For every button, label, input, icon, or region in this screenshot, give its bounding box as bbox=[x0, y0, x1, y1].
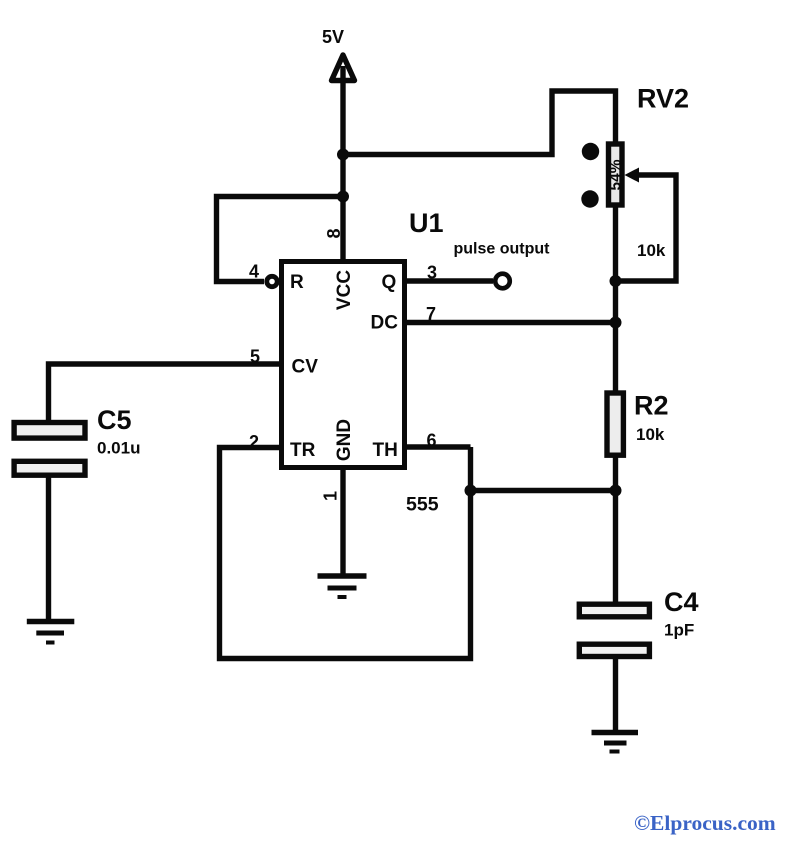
svg-text:6: 6 bbox=[427, 431, 437, 451]
wire C4 to ground bbox=[613, 659, 618, 733]
node junction dot VCC/RV2 branch bbox=[337, 149, 349, 161]
pin 3 wire Q output bbox=[407, 278, 493, 283]
capacitor C4 bottom plate bbox=[579, 644, 649, 656]
svg-text:10k: 10k bbox=[636, 425, 665, 444]
node junction dot wiper return bbox=[610, 275, 622, 287]
capacitor C5 top plate bbox=[14, 423, 85, 439]
IC U1 555 timer body bbox=[282, 262, 405, 468]
svg-text:TR: TR bbox=[290, 440, 316, 461]
wire TH junction to R2 bottom bbox=[471, 488, 616, 493]
svg-text:TH: TH bbox=[373, 440, 398, 461]
potentiometer RV2 body bbox=[609, 144, 623, 205]
svg-text:©Elprocus.com: ©Elprocus.com bbox=[634, 811, 776, 835]
pin 5 wire CV to C5 bbox=[49, 364, 280, 422]
svg-text:8: 8 bbox=[324, 228, 344, 238]
RV2 terminal dot upper bbox=[582, 143, 599, 160]
RV2 wiper arrow bbox=[625, 168, 640, 183]
node junction dot reset branch bbox=[337, 191, 349, 203]
svg-text:1pF: 1pF bbox=[664, 621, 694, 640]
svg-text:2: 2 bbox=[249, 432, 259, 452]
ground (C5) bbox=[27, 619, 75, 625]
power 5V arrow head bbox=[332, 55, 355, 81]
wire pot bottom to R2 bbox=[613, 205, 618, 392]
ground (C4) bbox=[592, 730, 639, 736]
wire R2 to C4 bbox=[613, 456, 618, 605]
pin 6 wire TH bbox=[407, 444, 471, 449]
wire C5 to ground bbox=[46, 476, 51, 622]
pin 1 GND stub wire bbox=[340, 467, 345, 576]
capacitor C4 top plate bbox=[579, 604, 649, 617]
node junction dot TH loop bbox=[465, 485, 477, 497]
node junction dot R2 bottom bbox=[610, 485, 622, 497]
svg-text:5: 5 bbox=[250, 347, 260, 367]
pin 7 wire DC bbox=[407, 320, 616, 325]
svg-text:R: R bbox=[290, 272, 304, 293]
svg-text:54%: 54% bbox=[608, 159, 625, 190]
capacitor C5 bottom plate bbox=[14, 461, 85, 475]
svg-text:7: 7 bbox=[426, 304, 436, 324]
svg-text:1: 1 bbox=[321, 491, 341, 501]
svg-text:C5: C5 bbox=[97, 405, 132, 435]
svg-text:555: 555 bbox=[406, 494, 439, 516]
power 5V arrow stem / wire VCC vertical bbox=[340, 60, 345, 261]
svg-text:pulse output: pulse output bbox=[454, 241, 551, 258]
wire to RV2 top bbox=[343, 91, 616, 155]
ground (IC pin1) bbox=[318, 573, 367, 579]
svg-text:R2: R2 bbox=[634, 391, 669, 421]
svg-text:10k: 10k bbox=[637, 241, 666, 260]
svg-text:DC: DC bbox=[371, 313, 399, 334]
node junction dot DC bbox=[610, 317, 622, 329]
svg-text:0.01u: 0.01u bbox=[97, 439, 140, 458]
svg-text:RV2: RV2 bbox=[637, 84, 689, 114]
svg-text:U1: U1 bbox=[409, 208, 444, 238]
svg-text:C4: C4 bbox=[664, 587, 699, 617]
svg-text:GND: GND bbox=[334, 419, 355, 461]
svg-text:3: 3 bbox=[427, 263, 437, 283]
pulse output terminal bbox=[495, 274, 510, 289]
svg-text:4: 4 bbox=[249, 262, 259, 282]
RV2 wiper wire bbox=[621, 175, 676, 281]
RV2 terminal dot lower bbox=[581, 190, 598, 207]
pin 4 inversion bubble bbox=[267, 276, 277, 286]
svg-text:5V: 5V bbox=[322, 27, 344, 47]
wire reset loop pin4 bbox=[217, 197, 344, 282]
svg-text:CV: CV bbox=[292, 357, 319, 378]
svg-text:VCC: VCC bbox=[334, 270, 355, 310]
pin 2 wire TR loop bbox=[220, 447, 471, 659]
svg-text:Q: Q bbox=[382, 272, 397, 293]
resistor R2 body bbox=[607, 393, 623, 455]
